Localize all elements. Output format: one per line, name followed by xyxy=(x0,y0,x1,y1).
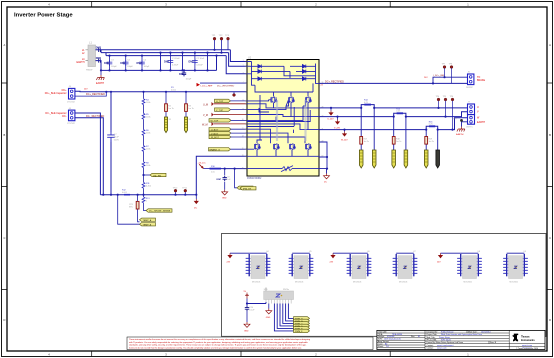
svg-text:20: 20 xyxy=(242,167,244,169)
svg-text:0.33uF: 0.33uF xyxy=(197,65,204,67)
svg-text:14: 14 xyxy=(242,136,244,138)
svg-text:Vdc_FB: Vdc_FB xyxy=(153,175,161,177)
svg-text:EARTH: EARTH xyxy=(96,82,104,85)
TI logo xyxy=(513,334,536,342)
svg-text:V_M: V_M xyxy=(203,114,208,117)
shunt resistor RS3 xyxy=(424,129,434,169)
svg-text:1: 1 xyxy=(243,60,244,62)
svg-text:DNP: DNP xyxy=(120,62,125,65)
svg-text:DC-: DC- xyxy=(62,115,66,118)
test point TP dot on DC+ rail xyxy=(233,94,236,97)
wire phase W xyxy=(319,118,468,130)
svg-text:Texas: Texas xyxy=(521,334,530,338)
wire DC+ rail xyxy=(75,90,247,93)
node temp sense labels xyxy=(117,194,156,227)
capacitor CX1 xyxy=(164,53,180,71)
transistor Q6 xyxy=(289,144,295,150)
svg-text:C: C xyxy=(3,236,5,240)
svg-text:Instruments: Instruments xyxy=(521,339,535,342)
wire phase V xyxy=(319,112,468,117)
svg-text:1757242: 1757242 xyxy=(67,123,76,125)
capacitor C20 xyxy=(244,306,255,333)
svg-text:Contact:: Contact: xyxy=(427,347,435,350)
earth at filter xyxy=(96,70,104,85)
svg-text:DNP: DNP xyxy=(137,62,142,65)
svg-text:www.ti.com/support: www.ti.com/support xyxy=(437,344,454,347)
wire phase U xyxy=(319,105,468,108)
power arrow gnd U8 xyxy=(437,253,461,263)
junction filter rails xyxy=(100,69,102,71)
junction R12 on DC- rail xyxy=(122,190,130,195)
capacitor CX2 xyxy=(189,53,205,71)
power arrow gnd U6 xyxy=(330,253,351,263)
diode D6 xyxy=(302,77,305,81)
svg-text:W_M: W_M xyxy=(202,123,208,126)
svg-text:0.1uF: 0.1uF xyxy=(249,309,255,311)
opto-coupler U6 xyxy=(347,251,372,283)
module internal low-side wiring xyxy=(247,95,319,169)
loop F4 xyxy=(404,116,408,169)
svg-text:MOC8106: MOC8106 xyxy=(295,281,303,283)
ferrite bead FB3 xyxy=(429,121,436,126)
wire module low-side returns xyxy=(319,142,328,170)
capacitor CY mid xyxy=(179,70,192,80)
capacitor C4 DNP xyxy=(120,56,133,71)
svg-text:SN74x: SN74x xyxy=(283,289,289,291)
shunt resistor RS2 xyxy=(392,116,402,169)
thermistor RT1 NTC xyxy=(129,194,140,222)
wire filter bottom rail xyxy=(96,56,217,71)
transistor Q5 xyxy=(273,144,279,150)
disclaimer box xyxy=(127,337,373,350)
opto-coupler U9 xyxy=(503,251,528,283)
connector J1 DC+ bulk xyxy=(45,86,76,103)
port V_M xyxy=(203,113,247,117)
wire N rail to module xyxy=(196,156,247,194)
svg-text:2: 2 xyxy=(243,65,244,67)
svg-text:MOC8106: MOC8106 xyxy=(353,281,361,283)
svg-text:licensure do not exceed that t: licensure do not exceed that the design … xyxy=(129,346,302,349)
loop F3 xyxy=(372,107,376,168)
wire gate signal bus xyxy=(274,304,293,331)
node gate label U_TOP xyxy=(215,99,248,103)
svg-text:I_DC+_REF: I_DC+_REF xyxy=(433,75,446,77)
svg-text:Project Title:: Project Title: xyxy=(427,333,438,336)
svg-text:DNP: DNP xyxy=(217,179,222,181)
svg-text:8: 8 xyxy=(243,108,244,110)
svg-text:Contact:: Contact: xyxy=(427,344,435,347)
power symbol DC- end xyxy=(194,194,198,210)
earth at motor connector xyxy=(456,122,468,136)
svg-text:C1 30nF: C1 30nF xyxy=(172,58,180,60)
test point TP2 xyxy=(219,35,224,54)
ferrite bead FB1 xyxy=(364,100,371,105)
opto-coupler U5 xyxy=(289,251,314,283)
svg-text:D: D xyxy=(549,318,551,322)
wire +15 to module xyxy=(221,168,247,170)
svg-text:with TI products. You are sole: with TI products. You are solely respons… xyxy=(129,341,309,344)
gate-drive section box xyxy=(222,234,547,337)
node gate label V_BOT xyxy=(209,131,247,135)
svg-text:FNB41560B2: FNB41560B2 xyxy=(247,177,262,180)
svg-text:1m Te: 1m Te xyxy=(429,141,435,143)
svg-text:100pF: 100pF xyxy=(144,66,150,68)
svg-text:1m Te: 1m Te xyxy=(396,141,402,143)
svg-text:© Texas Instruments 2014: © Texas Instruments 2014 xyxy=(516,347,538,350)
test point TP9 xyxy=(453,119,463,122)
module internal high-side wiring xyxy=(247,83,319,133)
svg-text:www.ti.com: www.ti.com xyxy=(437,347,447,350)
svg-text:18: 18 xyxy=(242,155,244,157)
node label BRAKE_GATE xyxy=(209,148,248,152)
title block xyxy=(377,330,545,350)
svg-text:2/4: 2/4 xyxy=(386,346,389,348)
diode D3 xyxy=(258,77,261,81)
svg-text:U: U xyxy=(477,106,479,109)
svg-text:12: 12 xyxy=(242,128,244,130)
test point TP1 xyxy=(212,35,217,51)
resistor R13 to label xyxy=(142,195,172,213)
svg-text:DC+_RECTIFIED: DC+_RECTIFIED xyxy=(217,86,235,88)
svg-text:100k: 100k xyxy=(146,117,150,119)
svg-text:BRAKE: BRAKE xyxy=(477,79,486,82)
node DC+_RECTIFIED into module xyxy=(197,83,248,88)
node gate label V_TOP xyxy=(215,108,248,112)
svg-text:MOC8106: MOC8106 xyxy=(399,281,407,283)
svg-text:MOC8106: MOC8106 xyxy=(464,281,472,283)
power V_HS tap xyxy=(334,116,341,130)
svg-text:C2 30nF: C2 30nF xyxy=(197,58,205,60)
svg-text:DNP: DNP xyxy=(179,73,184,76)
svg-text:D: D xyxy=(3,318,5,322)
wire X-cap ladder xyxy=(161,53,208,71)
transistor Q2 xyxy=(288,97,294,103)
svg-text:I_DC+_REF: I_DC+_REF xyxy=(200,86,213,88)
svg-text:6: 6 xyxy=(243,100,244,102)
power arrow gnd U4 xyxy=(227,253,250,263)
power +15_DC supply xyxy=(198,163,210,169)
svg-text:Inverter Power Stage: Inverter Power Stage xyxy=(14,12,73,18)
transistor Q4 brake xyxy=(254,144,260,150)
capacitor C1 DNP at choke output xyxy=(96,47,101,52)
port U_M xyxy=(203,102,247,106)
wire DC+ vertical drop xyxy=(110,92,112,195)
svg-text:0.001: 0.001 xyxy=(171,89,177,91)
node PWM labels stack xyxy=(294,317,310,333)
svg-text:PWM_F: PWM_F xyxy=(295,331,303,333)
svg-text:MOC8106: MOC8106 xyxy=(252,281,260,283)
svg-text:10: 10 xyxy=(242,119,244,121)
resistor R2 snubber column xyxy=(164,91,174,133)
svg-text:DNP: DNP xyxy=(96,47,101,50)
transistor Q3 xyxy=(305,97,311,103)
svg-text:100k: 100k xyxy=(146,102,150,104)
ferrite bead R10 xyxy=(210,166,222,174)
svg-text:TEMP_B: TEMP_B xyxy=(143,224,152,226)
svg-text:100k: 100k xyxy=(146,165,150,167)
svg-text:U_M: U_M xyxy=(203,103,208,106)
power module U2 body xyxy=(242,56,324,180)
diode D5 xyxy=(302,70,305,74)
svg-text:Sheet:: Sheet: xyxy=(378,345,384,348)
power arrow +5 U10 xyxy=(244,291,249,306)
svg-text:0.001: 0.001 xyxy=(122,192,128,194)
wire U10 supply xyxy=(247,302,266,304)
opto-coupler U7 xyxy=(393,251,418,283)
svg-text:0.40k: 0.40k xyxy=(146,186,151,188)
test point TP5 xyxy=(443,96,448,118)
svg-text:These instruments and/or licen: These instruments and/or licensure do no… xyxy=(129,338,310,341)
svg-text:A: A xyxy=(4,43,6,47)
port W_M xyxy=(202,122,247,126)
thermistor internal xyxy=(281,166,293,172)
svg-text:A: A xyxy=(549,43,551,47)
svg-text:OSTTC: OSTTC xyxy=(466,127,473,129)
svg-text:1m Te: 1m Te xyxy=(168,108,174,110)
resistor chain R4-R8 divider xyxy=(142,91,151,196)
svg-text:100k: 100k xyxy=(146,149,150,151)
opto-coupler U8 xyxy=(457,251,482,283)
svg-text:+15_DC: +15_DC xyxy=(198,163,207,165)
connector J6 motor xyxy=(466,102,485,129)
test point TP3 xyxy=(225,35,230,50)
wire AC rail top xyxy=(96,50,248,62)
svg-text:TEMP_A: TEMP_A xyxy=(143,219,152,222)
svg-text:Size: B: Size: B xyxy=(490,342,497,344)
capacitor C3 DNP xyxy=(104,56,117,71)
svg-text:282837: 282837 xyxy=(466,87,474,89)
svg-text:3: 3 xyxy=(243,73,244,75)
svg-text:Designed for:: Designed for: xyxy=(427,330,439,333)
svg-text:IPM_TH: IPM_TH xyxy=(243,188,251,190)
svg-text:DNP: DNP xyxy=(96,57,101,60)
ground module right xyxy=(319,169,330,184)
svg-text:Wide Drive Inverter with Optoc: Wide Drive Inverter with Optocoupled Gat… xyxy=(441,333,482,336)
opto-coupler U4 xyxy=(246,251,271,283)
svg-text:HS2W: HS2W xyxy=(86,70,93,72)
capacitor C2 DNP at choke output xyxy=(96,57,101,62)
svg-text:100pF: 100pF xyxy=(127,66,133,68)
node gate label U_BOT xyxy=(209,128,247,132)
diode D2 xyxy=(258,70,261,74)
buffer IC U10 xyxy=(264,288,294,304)
svg-text:DC+_RECTIFIED: DC+_RECTIFIED xyxy=(325,80,344,83)
diode D4 xyxy=(302,65,305,69)
capacitor C7 DC bus xyxy=(107,130,119,142)
test point TP10 xyxy=(173,188,179,196)
loop F5 black xyxy=(436,129,440,169)
svg-text:Drawn By: Motor Drives Systems: Drawn By: Motor Drives Systems Lab Team xyxy=(427,341,464,344)
svg-text:1757242: 1757242 xyxy=(67,101,76,103)
svg-text:GND: GND xyxy=(244,331,249,333)
svg-text:DNP: DNP xyxy=(164,61,169,64)
svg-text:U_TOP: U_TOP xyxy=(216,101,224,103)
svg-text:EARTH: EARTH xyxy=(76,61,84,64)
resistor R3 snubber column xyxy=(184,91,194,133)
svg-text:V_TOP: V_TOP xyxy=(216,110,224,112)
svg-text:E1: E1 xyxy=(418,336,420,338)
ferrite bead FB2 xyxy=(396,108,403,113)
svg-text:EARTH: EARTH xyxy=(477,121,485,124)
capacitor C5 DNP xyxy=(137,56,150,71)
svg-text:www.ti.com: www.ti.com xyxy=(522,344,532,347)
svg-text:22uF: 22uF xyxy=(114,137,120,139)
svg-text:W_24V: W_24V xyxy=(341,140,348,142)
shunt resistor RS1 xyxy=(359,107,369,168)
ground U10 pin2 xyxy=(266,304,272,320)
svg-text:DC: DC xyxy=(194,208,198,210)
svg-text:100pF: 100pF xyxy=(186,79,192,81)
svg-text:B: B xyxy=(549,133,551,137)
svg-text:DC-_SHUNT_SENSE: DC-_SHUNT_SENSE xyxy=(149,211,171,213)
svg-text:Rev:: Rev: xyxy=(411,336,415,338)
svg-text:1m Te: 1m Te xyxy=(364,141,370,143)
test point TP8 xyxy=(449,64,454,84)
transistor Q1 xyxy=(271,97,277,103)
wire AC rail second xyxy=(101,50,247,66)
capacitor C9 bypass xyxy=(217,168,232,200)
svg-text:500V: 500V xyxy=(114,139,120,141)
svg-text:U_BOT: U_BOT xyxy=(211,129,219,131)
svg-text:B: B xyxy=(4,133,6,137)
svg-text:GND: GND xyxy=(266,317,271,319)
svg-text:MOC8106: MOC8106 xyxy=(510,281,518,283)
node fault label wire xyxy=(234,168,254,191)
test point TP4 xyxy=(436,96,441,109)
svg-text:NTC: NTC xyxy=(129,206,134,208)
module internal rectifier diodes xyxy=(247,62,319,86)
svg-text:Public Release: Public Release xyxy=(441,331,454,333)
transistor Q7 xyxy=(305,144,311,150)
node VDC sense label xyxy=(142,173,166,177)
wire DC+ to brake connector xyxy=(319,82,468,84)
diode D1 xyxy=(258,65,261,69)
test point TP7 xyxy=(442,64,447,79)
svg-text:DNP: DNP xyxy=(104,62,109,65)
svg-text:100pF: 100pF xyxy=(111,66,117,68)
svg-text:Mod. Date:: Mod. Date: xyxy=(468,330,478,333)
svg-text:GND: GND xyxy=(222,198,227,200)
svg-text:DNP: DNP xyxy=(189,61,194,64)
svg-text:U_24V: U_24V xyxy=(328,119,335,121)
test point TP11 xyxy=(182,188,188,196)
svg-text:0.33uF: 0.33uF xyxy=(172,65,179,67)
svg-text:Power Stage: Power Stage xyxy=(439,336,450,339)
svg-text:DC+_Bulk Capacitor: DC+_Bulk Capacitor xyxy=(45,92,67,95)
svg-text:4: 4 xyxy=(243,82,244,84)
node gate label W_TOP xyxy=(209,119,247,123)
svg-text:EARTH: EARTH xyxy=(456,133,464,136)
svg-text:1m Te: 1m Te xyxy=(188,108,194,110)
wire AC rail third xyxy=(106,53,247,74)
power U_HS tap xyxy=(328,107,335,121)
wire DC- from J2 xyxy=(75,113,103,195)
test point TP6 xyxy=(450,96,455,131)
wire DC- bottom rail xyxy=(100,194,196,196)
connector J5 brake xyxy=(466,72,486,89)
svg-text:16: 16 xyxy=(242,148,244,150)
node gate label W_BOT xyxy=(209,135,247,139)
svg-text:Mod. Title:: Mod. Title: xyxy=(427,336,436,339)
svg-text:standards, and any other safet: standards, and any other safety, securit… xyxy=(129,344,307,347)
svg-text:100k: 100k xyxy=(146,133,150,135)
svg-text:10/21/2014: 10/21/2014 xyxy=(481,331,490,333)
common-mode choke L1 xyxy=(76,41,98,72)
connector J2 DC- bulk xyxy=(45,108,75,125)
svg-text:2.0k: 2.0k xyxy=(211,172,215,174)
wire brake sense xyxy=(433,77,468,83)
power W_HS tap xyxy=(341,129,348,142)
svg-text:W_BOT: W_BOT xyxy=(211,137,219,139)
svg-text:BRAKE_G: BRAKE_G xyxy=(210,148,221,151)
svg-text:C: C xyxy=(549,236,551,240)
